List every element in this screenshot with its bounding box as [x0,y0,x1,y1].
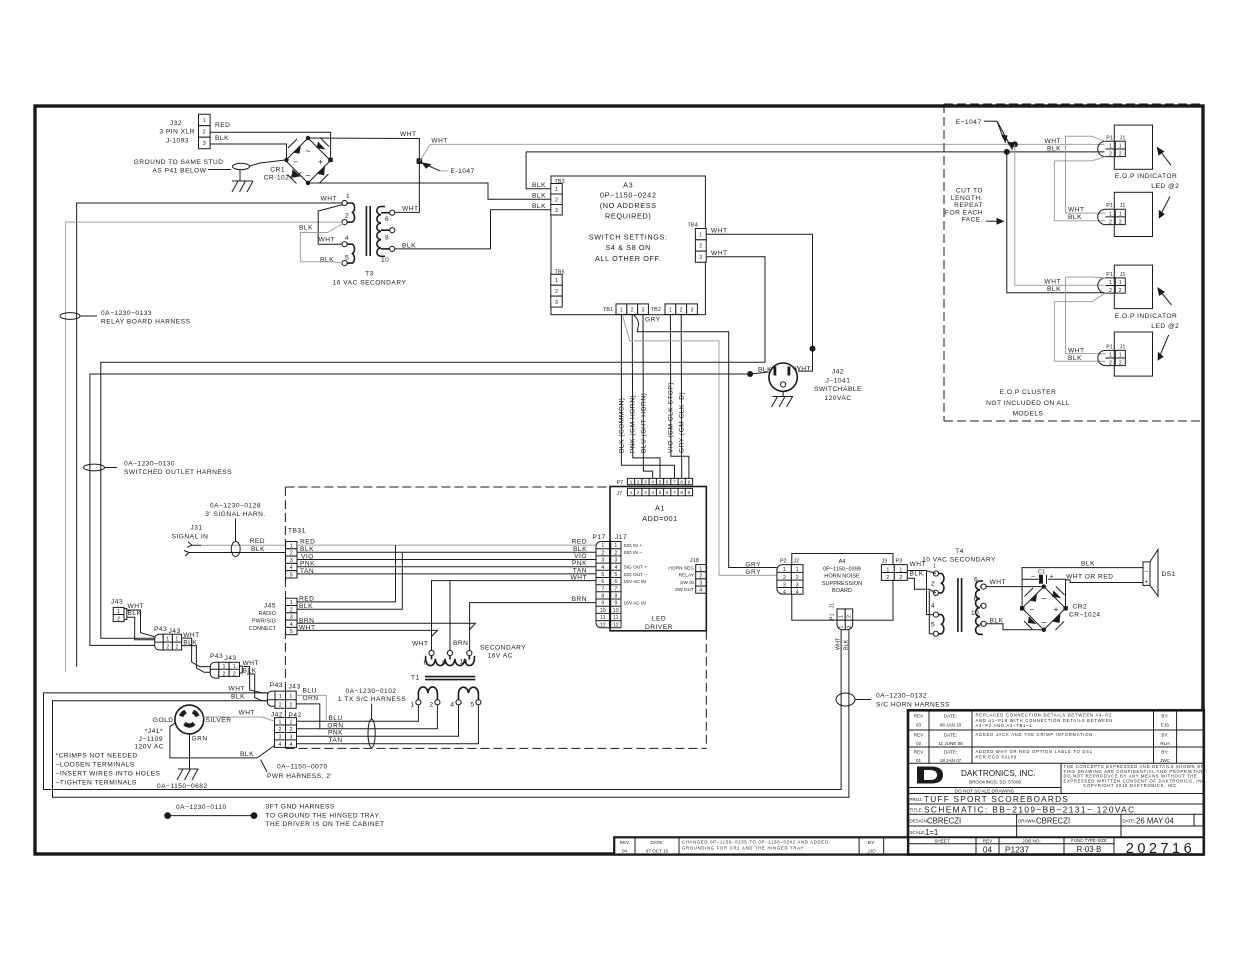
wire CR2 + WHT OR RED to DS1 [1066,574,1144,583]
svg-text:PWR/SIG: PWR/SIG [252,619,276,625]
svg-text:WHT: WHT [795,366,812,373]
svg-text:E.O.P INDICATOR: E.O.P INDICATOR [1115,173,1177,180]
svg-text:3: 3 [699,255,702,261]
svg-text:10: 10 [600,608,606,614]
wire CR1 bottom to TB3-2 [308,183,551,199]
svg-text:*J41*: *J41* [145,728,163,735]
wire J41 GOLD BLK to J42-4 [170,723,275,759]
svg-text:1: 1 [630,479,633,484]
svg-text:CR2: CR2 [1073,604,1088,611]
svg-text:2: 2 [345,213,349,220]
arrow to box 4 [1158,335,1169,361]
wire TB1-2 PNK (GM HORN) to P7-5 [632,314,660,478]
svg-text:J43: J43 [225,655,237,662]
svg-text:2: 2 [429,702,433,709]
jumper T3 2-5 (gray) [300,224,343,264]
svg-text:REQUIRED): REQUIRED) [605,212,651,221]
connector TB3 on A3 [551,179,565,215]
drawing frame border [35,106,1203,854]
svg-text:7: 7 [614,586,617,592]
svg-text:120V AC: 120V AC [134,744,164,751]
svg-text:SCALE:: SCALE: [910,830,926,835]
svg-text:0P−1150−0399: 0P−1150−0399 [823,566,861,572]
svg-text:2: 2 [931,581,935,588]
label 3FT GND HARNESS ... [266,804,385,829]
svg-text:BLK: BLK [532,192,546,199]
label E.O.P INDICATOR LED @2 (lower) [1115,313,1180,330]
svg-text:WHT: WHT [711,228,728,235]
svg-text:1: 1 [1109,353,1112,359]
ground lug at J32 [208,160,287,170]
wire GRY TB1-1 to A4 P2-2 (gray) [622,314,777,575]
svg-text:2: 2 [1109,360,1112,366]
svg-text:GRY: GRY [745,569,761,576]
svg-text:BOARD: BOARD [832,588,852,594]
svg-text:03: 03 [916,723,922,728]
svg-text:TITLE:: TITLE: [910,808,924,813]
connector TB5 on A3 [551,270,565,308]
svg-text:DATE:: DATE: [650,840,663,845]
svg-text:2: 2 [886,575,889,581]
wire T3-10 BLK to TB3-3 [395,210,551,249]
svg-text:GROUND TO SAME STUD: GROUND TO SAME STUD [134,159,224,166]
svg-text:FACE.: FACE. [961,217,983,224]
svg-text:7: 7 [601,586,604,592]
svg-text:1: 1 [290,600,293,606]
svg-text:16V AC IN: 16V AC IN [624,601,647,607]
svg-text:SW IN: SW IN [680,580,694,586]
wire TB1-3 BLU (SHT HORN) to P7-4 [643,314,653,478]
svg-text:CR−1024: CR−1024 [1069,612,1101,619]
svg-text:2: 2 [783,575,786,581]
svg-text:GRN: GRN [192,736,208,743]
svg-text:3: 3 [796,582,799,588]
svg-text:26 MAY 04: 26 MAY 04 [1136,817,1175,826]
svg-text:DAKTRONICS, INC.: DAKTRONICS, INC. [961,769,1036,778]
svg-text:J45: J45 [264,603,276,610]
svg-text:WHT: WHT [228,686,245,693]
transformer T3 [342,200,395,265]
svg-text:WHT: WHT [412,641,429,648]
svg-text:RELAY: RELAY [679,573,695,579]
svg-text:REV: REV [914,750,924,755]
labels RED BLK BRN WHT at J45 [299,596,316,632]
labels T3 pin numbers [345,193,389,264]
wire WHT drop to lower EOP pair [1015,144,1105,285]
plug J41 120V [175,705,204,734]
svg-text:BLK: BLK [251,546,265,553]
svg-text:9: 9 [688,490,691,495]
svg-text:FOR EACH: FOR EACH [945,209,983,216]
label CUT TO LENGTH REPEAT FOR EACH FACE [945,188,1005,225]
svg-text:2: 2 [637,490,640,495]
svg-text:2: 2 [290,727,293,733]
svg-text:BLK: BLK [299,603,313,610]
svg-text:120VAC: 120VAC [824,395,851,402]
svg-text:AND A1−P18 WITH CONNECTION DET: AND A1−P18 WITH CONNECTION DETAILS BETWE… [976,718,1114,723]
svg-text:0A−1230−0133: 0A−1230−0133 [101,310,152,317]
label *CRIMPS NOT NEEDED ... [56,753,161,787]
svg-text:AS P41 BELOW: AS P41 BELOW [152,168,206,175]
svg-text:GOLD: GOLD [153,717,174,724]
svg-text:BLK: BLK [299,225,313,232]
svg-text:S/C HORN HARNESS: S/C HORN HARNESS [876,702,950,709]
rev table row 01 [914,749,1171,763]
wire TB2-2 GRY (GM CLK-D) to P7-8 [680,314,683,478]
svg-text:1: 1 [290,720,293,726]
svg-text:1: 1 [796,567,799,573]
svg-text:SUPPRESSION: SUPPRESSION [822,581,862,587]
wire T4-10 BLK to CR2 bottom [986,624,1044,630]
connector TB4 on A3 [688,223,707,263]
svg-text:BRN: BRN [453,640,468,647]
svg-text:MODELS: MODELS [1013,411,1044,418]
svg-text:E.O.P CLUSTER: E.O.P CLUSTER [1000,389,1057,396]
svg-text:−TIGHTEN TERMINALS: −TIGHTEN TERMINALS [56,780,137,787]
svg-text:ADDED WHT OR RED OPTION LABLE: ADDED WHT OR RED OPTION LABLE TO DS1 [976,749,1093,754]
bridge rectifier CR2 [1020,584,1068,632]
svg-text:P1: P1 [830,613,836,620]
jumper T3 1-4 [318,205,343,245]
svg-text:PNK: PNK [328,730,343,737]
svg-text:NOT INCLUDED ON ALL: NOT INCLUDED ON ALL [986,400,1070,407]
svg-text:SIG OUT −: SIG OUT − [624,572,648,578]
box A4 HORN NOISE SUPPRESSION BOARD [792,554,893,621]
transformer T1 [411,650,481,705]
EOP LED indicator box 4 [1098,332,1153,376]
svg-text:REPEAT: REPEAT [954,202,983,209]
svg-text:1: 1 [899,567,902,573]
svg-text:5: 5 [614,572,617,578]
svg-text:REV: REV [914,714,924,719]
svg-text:4: 4 [279,742,282,748]
svg-text:0A−1230−0132: 0A−1230−0132 [876,693,927,700]
svg-text:9: 9 [688,479,691,484]
svg-text:PWR HARNESS, 2': PWR HARNESS, 2' [267,773,332,780]
svg-text:J1: J1 [830,603,836,609]
svg-text:4: 4 [345,235,349,242]
svg-text:CBRECZI: CBRECZI [1036,817,1070,826]
svg-text:BLU: BLU [303,687,317,694]
svg-text:TB1: TB1 [603,307,613,313]
svg-text:BLU: BLU [328,715,342,722]
svg-text:CR1: CR1 [270,167,285,174]
svg-text:1: 1 [346,193,350,200]
svg-text:WHT: WHT [1068,348,1085,355]
svg-text:1: 1 [669,308,672,314]
svg-text:3: 3 [644,479,647,484]
svg-text:3: 3 [644,490,647,495]
svg-text:2: 2 [233,672,236,678]
svg-text:1: 1 [1119,353,1122,359]
svg-text:1: 1 [699,232,702,238]
svg-text:2: 2 [279,727,282,733]
label J31 SIGNAL IN [172,525,209,541]
svg-text:1: 1 [1119,212,1122,218]
svg-text:J1: J1 [1120,344,1126,350]
svg-text:(NO ADDRESS: (NO ADDRESS [600,201,657,210]
connector J31 pins [184,542,201,556]
svg-text:10: 10 [613,608,619,614]
label E.O.P CLUSTER NOT INCLUDED ON ALL MODELS [986,389,1070,418]
svg-text:1: 1 [1109,280,1112,286]
svg-text:FUNC·TYPE·SIZE: FUNC·TYPE·SIZE [1071,838,1107,843]
svg-text:5: 5 [290,629,293,635]
svg-text:BY:: BY: [1161,714,1168,719]
svg-text:DATE:: DATE: [944,733,957,738]
wire long loop WHT to P43#3-1 [44,630,842,789]
svg-text:WHT: WHT [1044,138,1061,145]
svg-text:8: 8 [601,594,604,600]
svg-text:T4: T4 [955,548,964,555]
svg-text:CUT TO: CUT TO [956,188,983,195]
label E-1047 top right with arrows [956,119,1014,151]
wire BRN P17-9 to T1-10 [470,603,596,651]
left rev 04 row [614,837,908,854]
harness marker 0A-1230-0130 [84,461,233,477]
svg-text:1: 1 [1109,212,1112,218]
harness ellipse S/C horn [836,693,855,706]
svg-text:BRN: BRN [572,596,587,603]
svg-text:BLK: BLK [1068,214,1082,221]
svg-text:7: 7 [673,479,676,484]
wire P43#1 BLK out down to P43#2-2 [182,646,212,673]
wire P3-1 WHT to T4-1 [907,571,936,574]
junction dots EOP feed [1012,141,1018,147]
wire T3-2 to left column (gray) [66,222,342,672]
svg-text:4: 4 [450,702,454,709]
svg-text:4: 4 [931,603,935,610]
wire WHT P17-6 to T1-6 [432,581,597,651]
svg-text:CHANGED 0P−1150−0235 TO 0P−115: CHANGED 0P−1150−0235 TO 0P−1150−0242 AND… [682,840,829,845]
svg-text:SECONDARY: SECONDARY [480,645,526,652]
connector TB1 on A3 [603,304,648,315]
ground symbol below J32 lug [232,170,253,193]
labels T1 pin numbers [410,659,474,709]
svg-text:J−1041: J−1041 [826,377,851,384]
labels BLK at TB3 [532,182,546,210]
svg-text:1: 1 [117,609,120,615]
svg-text:WHT: WHT [402,206,419,213]
svg-text:8: 8 [442,660,446,667]
svg-text:0A−1230−0102: 0A−1230−0102 [345,688,396,695]
svg-text:P1: P1 [1106,203,1113,209]
wire J31 BLK to TB31-2 [201,552,286,554]
svg-text:CBRECZI: CBRECZI [927,817,961,826]
wire P43#3 ORN down to P42 ORN row [296,704,320,729]
connector P7 [617,478,693,486]
svg-text:1: 1 [1109,144,1112,150]
svg-text:02: 02 [916,741,922,746]
svg-text:LED @2: LED @2 [1151,323,1179,330]
svg-text:2: 2 [601,550,604,556]
pin function labels at J17 [624,543,648,607]
svg-text:−: − [1031,574,1035,581]
svg-text:+: + [1144,578,1148,585]
svg-text:16 VAC SECONDARY: 16 VAC SECONDARY [333,280,407,287]
svg-text:10 VAC SECONDARY: 10 VAC SECONDARY [922,557,996,564]
svg-text:0A−1230−0110: 0A−1230−0110 [176,804,227,811]
connector P1/J1 on A4 bottom [830,603,853,630]
connector P43/J43 #2 [210,653,242,678]
wire T3-1 to left column [77,203,342,667]
svg-text:3: 3 [614,558,617,564]
svg-text:202716: 202716 [1126,841,1195,857]
svg-text:JWC: JWC [1160,758,1171,763]
svg-text:2: 2 [289,703,292,709]
svg-text:9: 9 [601,601,604,607]
svg-text:E.O.P INDICATOR: E.O.P INDICATOR [1115,313,1177,320]
wire TB4-1 WHT to J42 switchable [706,234,812,371]
svg-text:P1: P1 [1106,344,1113,350]
svg-text:RED: RED [572,539,587,546]
svg-text:2: 2 [166,645,169,651]
svg-text:2: 2 [699,573,702,579]
svg-text:BROOKINGS, SD 57006: BROOKINGS, SD 57006 [969,780,1022,785]
svg-text:DATE:: DATE: [944,714,957,719]
wire BLK J42 switchable to left column [90,372,769,645]
wire P43#2 BLK drop to P43#3-2 [247,674,269,701]
svg-text:SCHEMATIC: BB−2109−BB−2131− 12: SCHEMATIC: BB−2109−BB−2131− 120VAC [924,804,1135,814]
svg-text:2: 2 [631,308,634,314]
svg-text:SWITCHED OUTLET HARNESS: SWITCHED OUTLET HARNESS [124,469,232,476]
harness ellipse signal [231,542,240,557]
svg-text:JJO: JJO [867,849,876,854]
svg-text:COPYRIGHT 2010 DAKTRONICS, INC: COPYRIGHT 2010 DAKTRONICS, INC. [1083,783,1178,788]
arrow to box 3 [1157,287,1171,305]
svg-text:1: 1 [839,615,845,618]
svg-text:5: 5 [659,490,662,495]
junction dot on BLK wire [747,371,753,377]
svg-text:1: 1 [886,567,889,573]
svg-text:11 JUNE 08: 11 JUNE 08 [938,741,963,746]
svg-text:+: + [1054,605,1059,614]
svg-text:1: 1 [175,637,178,643]
svg-text:BY:: BY: [1161,733,1168,738]
svg-text:6: 6 [424,660,428,667]
svg-text:1: 1 [289,694,292,700]
svg-text:0A−1150−0682: 0A−1150−0682 [157,783,208,790]
junction dot on J42 WHT wire [810,346,816,352]
svg-text:6: 6 [666,479,669,484]
svg-text:1: 1 [1119,144,1122,150]
svg-text:2: 2 [680,308,683,314]
svg-text:REPLACED CONNECTION DETAILS BE: REPLACED CONNECTION DETAILS BETWEEN A4−P… [976,713,1112,718]
svg-text:DS1: DS1 [1162,571,1176,578]
svg-text:6: 6 [601,579,604,585]
svg-text:SIG OUT +: SIG OUT + [624,565,648,571]
svg-text:3FT GND HARNESS: 3FT GND HARNESS [266,804,335,811]
svg-text:8: 8 [614,594,617,600]
label J45 RADIO PWR/SIG CONNECT [249,603,277,633]
svg-text:RLH: RLH [1160,741,1169,746]
svg-text:A1: A1 [655,504,665,513]
svg-text:3: 3 [601,558,604,564]
svg-text:GRY (GM CLK−D): GRY (GM CLK−D) [679,392,686,453]
svg-text:4: 4 [796,590,799,596]
svg-text:T3: T3 [365,271,374,278]
svg-text:−: − [1029,605,1034,614]
svg-text:4: 4 [614,565,617,571]
label GROUND TO SAME STUD AS P41 BELOW [134,159,224,175]
svg-text:4: 4 [290,622,293,628]
svg-text:2: 2 [1119,219,1122,225]
svg-text:GROUNDING FOR CR1 AND THE HING: GROUNDING FOR CR1 AND THE HINGED TRAY [682,846,804,851]
svg-text:S4 & S8 ON: S4 & S8 ON [605,243,651,252]
svg-text:ORN: ORN [327,722,343,729]
svg-text:SWITCHABLE: SWITCHABLE [814,386,862,393]
svg-text:REV: REV [983,839,993,844]
svg-text:2: 2 [279,703,282,709]
svg-text:J42: J42 [832,369,844,376]
svg-text:1: 1 [166,637,169,643]
svg-text:RED: RED [215,122,230,129]
connector P2/J2 on A4 [777,559,803,596]
wire BLK (upper) to EOP cluster [526,151,1104,153]
svg-text:8: 8 [680,479,683,484]
connector TB31 [286,528,306,581]
connector P17/J17 [593,534,628,628]
svg-text:4: 4 [290,742,293,748]
svg-text:−: − [293,158,298,167]
svg-text:3: 3 [203,141,206,147]
svg-text:3: 3 [783,582,786,588]
svg-text:−: − [1144,568,1148,575]
label 0A-1230-0132 S/C HORN HARNESS [855,693,950,709]
svg-text:T1: T1 [411,675,420,682]
wire branch RED down to J45-1 [297,545,396,602]
svg-text:P43: P43 [154,626,167,633]
svg-text:10: 10 [460,659,468,666]
svg-text:3: 3 [279,735,282,741]
wire TB31-1 to P17-1 (gray RED) [297,544,596,546]
speaker DS1 [1143,550,1176,597]
svg-text:SWITCH SETTINGS:: SWITCH SETTINGS: [589,233,668,242]
svg-text:*CRIMPS NOT NEEDED: *CRIMPS NOT NEEDED [56,753,138,760]
svg-text:BLK: BLK [240,751,254,758]
svg-text:TB31: TB31 [288,528,306,535]
leader PWR HARNESS [261,760,333,781]
labels WHT BRN SECONDARY 16V AC at T1 [412,640,526,660]
gnd harness 0A-1230-0110 [164,804,257,819]
svg-text:2: 2 [1119,360,1122,366]
svg-text:J3: J3 [882,559,888,565]
svg-text:WHT: WHT [711,250,728,257]
wire J32-3 BLK to CR1 - [210,144,286,160]
E.O.P cluster dashed box [944,104,1201,421]
wire P43#1 WHT out down to P43#2-1 [182,638,212,667]
box A3 controller [551,176,705,315]
svg-text:−INSERT WIRES INTO HOLES: −INSERT WIRES INTO HOLES [56,771,161,778]
svg-text:SW OUT: SW OUT [675,587,694,593]
svg-text:2: 2 [290,607,293,613]
connector J7 [617,488,693,496]
transformer T4 [922,548,996,636]
svg-text:~: ~ [305,146,310,156]
svg-text:5: 5 [290,573,293,579]
wire BLK drop to box 2 [1054,161,1105,221]
svg-text:2: 2 [637,479,640,484]
svg-text:TUFF SPORT SCOREBOARDS: TUFF SPORT SCOREBOARDS [924,794,1069,804]
svg-text:WHT OR RED: WHT OR RED [1066,574,1113,581]
wire P3-2 BLK to T4-2 [907,578,936,593]
harness ellipse T1 [368,719,375,747]
svg-text:HORN NOISE: HORN NOISE [824,574,860,580]
connector J43 single [111,599,127,623]
svg-text:2: 2 [796,575,799,581]
wire P43#2 WHT drop to P43#3-1 [244,667,270,693]
text A1 ADD=001 [642,504,678,524]
